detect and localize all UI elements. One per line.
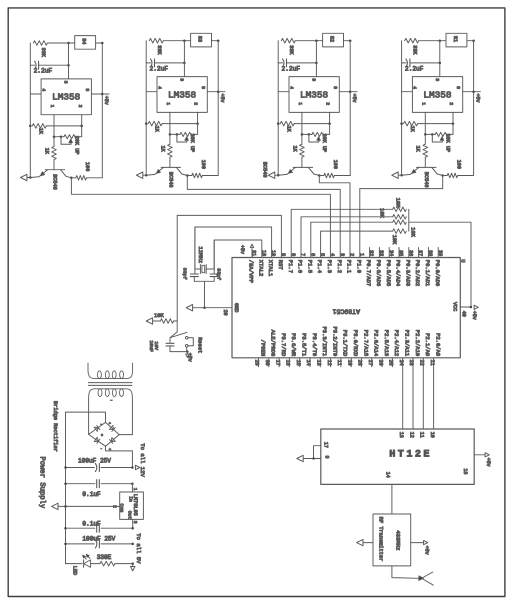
node emitter/ground rail (block 4): [400, 174, 403, 177]
ground arrow Com: [52, 503, 58, 509]
svg-text:LM358: LM358: [168, 89, 197, 100]
svg-text:Out: Out: [127, 511, 133, 520]
svg-text:To all 5V: To all 5V: [135, 533, 142, 564]
svg-text:XTAL1: XTAL1: [267, 260, 274, 277]
svg-text:LM358: LM358: [423, 89, 452, 100]
svg-text:U: U: [460, 259, 466, 262]
pin 38 P0.1/AD1: [424, 248, 433, 287]
node rung4 right: [131, 543, 134, 546]
switch S2 (block 3): [323, 33, 344, 47]
wire pin2 down (block 1): [81, 115, 83, 126]
svg-text:-: -: [100, 448, 102, 452]
svg-text:P3.4/T0: P3.4/T0: [311, 333, 318, 356]
svg-text:P0.6/AD6: P0.6/AD6: [375, 260, 382, 286]
ground arrow (block 3): [268, 172, 278, 178]
svg-text:P2.1/A9: P2.1/A9: [424, 333, 431, 356]
svg-text:4: 4: [288, 86, 294, 89]
node collector (block 1): [70, 177, 73, 180]
pin 10 P3.0/RXD: [346, 330, 359, 367]
svg-text:2: 2: [448, 102, 454, 105]
svg-text:+5v: +5v: [423, 546, 429, 555]
regulator LM78L05: [118, 492, 143, 520]
pin 3 P1.2: [336, 253, 345, 273]
capacitor 2.2uF (block 3): [278, 59, 316, 72]
wire pin8 to rail (block 3): [339, 91, 350, 93]
svg-text:P2.2/A10: P2.2/A10: [414, 330, 421, 356]
pin 35 P0.4/AD4: [395, 248, 404, 287]
svg-text:S4: S4: [81, 38, 87, 44]
pin 33 P0.6/AD6: [375, 248, 384, 287]
svg-text:1: 1: [132, 488, 138, 491]
wire left rail (block 2): [145, 41, 147, 176]
node rail top (block 2): [217, 39, 220, 42]
resistor 10K pull-up 3: [393, 220, 407, 225]
ground arrow (block 2): [136, 172, 146, 178]
svg-text:433MHz: 433MHz: [395, 530, 402, 550]
svg-text:10K: 10K: [154, 313, 164, 319]
svg-text:3: 3: [132, 521, 138, 524]
svg-text:1K: 1K: [154, 126, 160, 133]
wire crystal caps common: [194, 280, 214, 282]
resistor 33K (block 3): [281, 38, 322, 55]
switch S1 (block 4): [446, 33, 467, 47]
node rail top (block 4): [472, 39, 475, 42]
wire pin4 to rail (block 4): [402, 91, 413, 93]
svg-text:HT12E: HT12E: [389, 450, 432, 461]
transformer core: [88, 382, 132, 384]
pin 14 P3.4/T0: [305, 333, 318, 367]
transistor BC548 (block 3): [261, 162, 319, 178]
svg-text:P1.7: P1.7: [287, 260, 294, 273]
pin 4 P1.3: [326, 253, 335, 273]
power +5v tap (block 3): [349, 90, 357, 102]
svg-text:2: 2: [111, 505, 117, 508]
svg-text:4: 4: [156, 86, 162, 89]
capacitor 2.2uF (block 2): [146, 59, 184, 72]
wire rail to regulator: [131, 484, 133, 492]
svg-text:P3.7/RD: P3.7/RD: [280, 333, 287, 357]
wire pin8 to rail (block 4): [463, 91, 474, 93]
wire HT12E pin18 +5v: [474, 454, 485, 456]
wire P2 to HT12E pin 10: [433, 358, 435, 429]
svg-text:P3.3/INT1: P3.3/INT1: [321, 326, 328, 356]
svg-text:32: 32: [368, 250, 374, 256]
label 10K b: [378, 208, 384, 218]
switch S4 (block 1): [75, 36, 96, 50]
wire pin1 down (block 1): [53, 115, 55, 147]
svg-text:100: 100: [84, 162, 90, 171]
node emitter/ground rail (block 2): [145, 174, 148, 177]
svg-text:2: 2: [77, 105, 83, 108]
node rail top (block 1): [101, 42, 104, 45]
svg-text:2: 2: [349, 253, 355, 256]
svg-text:P0.3/AD3: P0.3/AD3: [404, 260, 411, 286]
svg-text:S2: S2: [329, 36, 335, 42]
power +5v tap (block 4): [472, 90, 480, 102]
op-amp LM358 (block 4): [412, 77, 463, 113]
svg-text:/PSEN: /PSEN: [259, 340, 266, 357]
pin 7 P1.6: [297, 253, 306, 273]
wire S-box to rail (block 1): [96, 42, 103, 44]
svg-text:18: 18: [260, 250, 266, 256]
wire left rail (block 1): [29, 43, 31, 178]
wire P2 to HT12E pin 13: [402, 358, 404, 429]
wire pin2 down (block 4): [452, 112, 454, 123]
pin 31 /EA/VPP: [248, 250, 257, 283]
node rung1 right: [131, 466, 134, 469]
svg-text:1: 1: [49, 105, 55, 108]
svg-text:2: 2: [325, 102, 331, 105]
svg-text:100: 100: [332, 160, 338, 169]
node cap/pin3 (block 3): [315, 62, 318, 65]
svg-text:1K: 1K: [43, 148, 49, 155]
svg-text:AT89C51: AT89C51: [333, 308, 360, 315]
ground arrow transmitter: [357, 539, 363, 545]
svg-text:9: 9: [324, 456, 330, 459]
ground arrow (block 1): [21, 174, 31, 180]
svg-text:20: 20: [222, 310, 228, 316]
node pin2/1K/pot (block 1): [80, 125, 83, 128]
resistor 33K (block 4): [405, 38, 446, 55]
pin 32 P0.7/AD7: [365, 248, 374, 287]
svg-text:P3.2/INT0: P3.2/INT0: [331, 326, 338, 356]
node rung2 left: [64, 482, 67, 485]
power +5v VCC pin40: [460, 305, 478, 320]
pin 6 P1.5: [306, 253, 315, 273]
resistor 33K (block 1): [33, 41, 74, 58]
resistor 100 (block 4): [443, 160, 474, 178]
svg-text:4: 4: [329, 253, 335, 256]
svg-text:+5v: +5v: [485, 458, 491, 467]
wire P2 to HT12E pin 11: [422, 358, 424, 429]
svg-text:P2.5/A13: P2.5/A13: [383, 330, 390, 356]
pin 1 P1.0: [355, 253, 364, 273]
pin 29 /PSEN: [254, 340, 267, 367]
svg-text:1K: 1K: [291, 146, 297, 153]
svg-text:Reset: Reset: [197, 337, 203, 353]
svg-text:3: 3: [63, 81, 69, 84]
svg-text:1: 1: [358, 253, 364, 256]
svg-text:RST: RST: [277, 260, 284, 271]
ground arrow reset: [146, 318, 152, 324]
svg-text:1K: 1K: [415, 146, 421, 153]
node HT12E gnd: [312, 457, 315, 460]
wire pull-up 4 to P1.4: [321, 231, 393, 257]
wire left rail (block 3): [277, 41, 279, 176]
svg-text:GND: GND: [233, 303, 239, 312]
pin 27 P2.6/A14: [367, 330, 380, 367]
wire Out down: [132, 519, 134, 528]
node collector (block 3): [318, 174, 321, 177]
node rail/1K (block 2): [145, 122, 148, 125]
svg-text:100uF 25V: 100uF 25V: [82, 536, 115, 543]
wire right rail (block 3): [349, 41, 351, 176]
pin 34 P0.5/AD5: [385, 248, 394, 287]
capacitor 2.2uF (block 4): [402, 59, 440, 72]
svg-text:2.2uF: 2.2uF: [282, 65, 301, 72]
pin 13 P3.3/INT1: [316, 326, 329, 366]
svg-text:36: 36: [407, 250, 413, 256]
svg-text:+5v: +5v: [471, 311, 477, 320]
pin 9 RST: [277, 253, 286, 270]
svg-text:9: 9: [280, 253, 286, 256]
svg-text:P0.1/AD1: P0.1/AD1: [424, 260, 431, 287]
svg-text:P1.2: P1.2: [336, 260, 343, 273]
node rung1 left: [64, 466, 67, 469]
svg-text:Bridge Rectifier: Bridge Rectifier: [52, 401, 58, 452]
node rail/1K (block 4): [400, 122, 403, 125]
node rung3 left: [64, 527, 67, 530]
bridge diode 4: [111, 437, 115, 441]
svg-text:10K: 10K: [391, 235, 397, 245]
svg-text:2.2uF: 2.2uF: [405, 65, 424, 72]
svg-text:12MHz: 12MHz: [197, 246, 204, 263]
svg-text:2.2uF: 2.2uF: [34, 68, 53, 75]
svg-text:330E: 330E: [97, 554, 112, 561]
svg-text:33K: 33K: [156, 45, 162, 55]
wire right rail (block 2): [217, 41, 219, 176]
svg-text:3: 3: [434, 78, 440, 81]
svg-text:P1.6: P1.6: [297, 260, 304, 273]
antenna: [392, 566, 433, 585]
node S-box-left (block 3): [315, 39, 318, 42]
pin 24 P2.3/A11: [398, 330, 411, 366]
wire XTAL1 to crystal: [195, 227, 272, 269]
transistor BC548 (block 1): [30, 170, 71, 190]
wire pin1 down (block 3): [301, 112, 303, 144]
pin 19 XTAL1: [267, 250, 276, 277]
svg-text:8: 8: [290, 253, 296, 256]
resistor 10K pull-up 2: [393, 215, 407, 220]
svg-text:33: 33: [378, 250, 384, 256]
wire block4 output to P1.0: [360, 176, 443, 258]
svg-text:7: 7: [300, 253, 306, 256]
svg-text:Power Supply: Power Supply: [37, 457, 45, 509]
RF transmitter module: [373, 514, 411, 566]
wire RST: [177, 215, 281, 332]
resistor 1K vertical (block 4): [415, 144, 428, 167]
wire S-box to rail (block 4): [467, 40, 474, 42]
svg-text:31: 31: [251, 250, 257, 256]
node collector (block 4): [441, 174, 444, 177]
svg-text:13: 13: [398, 432, 404, 438]
power +5v reset: [186, 352, 193, 362]
svg-text:3: 3: [179, 78, 185, 81]
svg-text:+5v: +5v: [187, 353, 193, 362]
wire pull-up 1 to P1.7: [291, 209, 393, 257]
bridge rectifier diamond: [89, 422, 120, 446]
wire reset bottom: [170, 351, 187, 353]
svg-text:14: 14: [385, 472, 391, 478]
svg-text:BC548: BC548: [52, 174, 58, 190]
wire pin1 down (block 4): [424, 112, 426, 144]
wire S-box to rail (block 2): [212, 40, 219, 42]
svg-text:4: 4: [412, 86, 418, 89]
pin 23 P2.2/A10: [408, 330, 421, 366]
svg-text:100: 100: [200, 160, 206, 169]
node S-box-left (block 2): [183, 39, 186, 42]
resistor 330E: [91, 554, 133, 566]
wire block3 output to P1.1: [319, 176, 350, 258]
svg-text:17: 17: [323, 442, 329, 448]
svg-text:39: 39: [437, 250, 443, 256]
pin 15 P3.5/T1: [295, 333, 308, 367]
wire cap common to gnd: [204, 281, 206, 307]
svg-text:To all 12V: To all 12V: [139, 443, 146, 477]
encoder HT12E: [321, 429, 474, 484]
svg-text:P1.4: P1.4: [316, 260, 323, 274]
svg-text:6: 6: [309, 253, 315, 256]
output To all 5V: [131, 533, 143, 571]
svg-text:P0.2/AD2: P0.2/AD2: [414, 260, 421, 286]
node pin2/1K/pot (block 4): [452, 122, 455, 125]
wire pin8 to rail (block 1): [91, 93, 102, 95]
svg-text:20K UP: 20K UP: [321, 134, 327, 153]
wire pin3 feed (block 4): [439, 41, 441, 77]
svg-text:5: 5: [319, 253, 325, 256]
capacitor 33pf left: [182, 227, 199, 281]
svg-text:8: 8: [455, 86, 461, 89]
capacitor 100uF 25V filter: [66, 458, 133, 472]
bridge diode 3: [94, 437, 98, 441]
capacitor 0.1uF input: [66, 480, 133, 498]
resistor 1K horizontal (block 3): [280, 121, 329, 132]
wire pull-up 2 to P1.6: [301, 217, 393, 258]
svg-text:10K: 10K: [378, 208, 384, 218]
svg-text:BC548: BC548: [423, 172, 429, 188]
power +5v tap (block 2): [217, 90, 225, 102]
svg-text:19: 19: [270, 250, 276, 256]
svg-text:RF Transmitter: RF Transmitter: [378, 517, 384, 562]
svg-text:~: ~: [110, 400, 112, 404]
node S-box-left (block 1): [67, 42, 70, 45]
svg-text:LM358: LM358: [52, 92, 81, 103]
svg-text:o: o: [101, 434, 103, 438]
svg-text:33pf: 33pf: [182, 268, 188, 280]
node rung3 right: [131, 527, 134, 530]
potentiometer 20K UP (block 2): [169, 124, 198, 153]
svg-text:12: 12: [408, 432, 414, 438]
svg-text:18: 18: [462, 468, 468, 474]
wire secondary right to bridge: [119, 399, 132, 435]
svg-text:3: 3: [339, 253, 345, 256]
transformer primary: [88, 363, 133, 379]
wire Com to ground: [58, 505, 120, 507]
wire left rail (block 4): [401, 41, 403, 176]
resistor 1K vertical (block 2): [159, 144, 172, 167]
pin 11 P3.1/TXD: [336, 330, 349, 367]
power +5v tap (block 1): [101, 93, 109, 105]
svg-text:10K: 10K: [410, 227, 416, 237]
output To all 12V: [135, 443, 146, 477]
svg-text:P2.0/A8: P2.0/A8: [434, 333, 441, 356]
wire transmitter +5v: [411, 542, 424, 544]
svg-text:3: 3: [311, 78, 317, 81]
pin 26 P2.5/A13: [377, 330, 390, 367]
pin 2 P1.1: [346, 253, 355, 274]
svg-text:P2.6/A14: P2.6/A14: [373, 330, 380, 357]
svg-text:100uF 25V: 100uF 25V: [78, 458, 111, 465]
wire pin8 to rail (block 2): [207, 91, 218, 93]
node gnd junction: [203, 306, 206, 309]
svg-text:11: 11: [419, 432, 425, 438]
potentiometer 20K UP (block 3): [301, 124, 330, 153]
switch Reset: [170, 332, 203, 353]
svg-text:+5v: +5v: [351, 94, 357, 103]
node collector (block 2): [186, 174, 189, 177]
svg-text:LED: LED: [72, 566, 78, 575]
op-amp LM358 (block 2): [156, 77, 207, 113]
power +5v EA pin: [239, 244, 254, 257]
svg-text:8: 8: [332, 86, 338, 89]
svg-text:VCC: VCC: [451, 302, 457, 311]
pin 12 P3.2/INT0: [326, 326, 339, 366]
wire bridge bottom to right rail: [106, 446, 133, 467]
svg-text:1K: 1K: [286, 126, 292, 133]
capacitor 2.2uF (block 1): [30, 61, 68, 74]
capacitor 10uF 16V: [148, 340, 174, 352]
svg-text:P1.1: P1.1: [346, 260, 353, 274]
svg-text:20K UP: 20K UP: [189, 134, 195, 153]
svg-text:P3.1/TXD: P3.1/TXD: [342, 330, 349, 357]
svg-text:P2.3/A11: P2.3/A11: [404, 330, 411, 357]
wire pull-up bus: [408, 209, 410, 231]
svg-text:16V: 16V: [153, 341, 159, 350]
wire pin3 feed (block 1): [68, 43, 70, 79]
wire pin3 feed (block 3): [315, 41, 317, 77]
svg-text:+5v: +5v: [474, 94, 480, 103]
svg-text:In: In: [127, 496, 133, 502]
wire GND pin 20: [192, 307, 232, 309]
svg-text:40: 40: [461, 311, 467, 317]
power +5v HT12E: [485, 453, 491, 467]
node rail/1K (block 1): [29, 125, 32, 128]
pin 39 P0.0/AD0: [434, 248, 443, 287]
svg-text:P3.0/RXD: P3.0/RXD: [352, 330, 359, 357]
node pin2/1K/pot (block 3): [328, 122, 331, 125]
wire P2 to HT12E pin 12: [412, 358, 414, 429]
resistor 100 (block 2): [187, 160, 218, 178]
pin 5 P1.4: [316, 253, 325, 274]
wire pin3 feed (block 2): [183, 41, 185, 77]
wire pull-up 3 to P1.5: [311, 222, 393, 257]
wire block1 output to P1.3: [71, 178, 330, 258]
svg-text:P0.7/AD7: P0.7/AD7: [365, 260, 372, 286]
svg-text:35: 35: [398, 250, 404, 256]
svg-text:20K UP: 20K UP: [445, 134, 451, 153]
svg-text:0.1uF: 0.1uF: [82, 520, 101, 527]
svg-text:BC548: BC548: [168, 172, 174, 188]
node Com/left rail: [64, 505, 67, 508]
resistor 1K horizontal (block 2): [148, 121, 197, 132]
pin 8 P1.7: [287, 253, 296, 273]
svg-text:20K UP: 20K UP: [73, 136, 79, 155]
svg-text:-: -: [100, 423, 102, 427]
svg-text:2.2uF: 2.2uF: [150, 65, 169, 72]
pin 17 P3.7/RD: [274, 333, 287, 367]
resistor 100 (block 3): [319, 160, 350, 178]
svg-text:P0.5/AD5: P0.5/AD5: [385, 260, 392, 286]
svg-text:+5v: +5v: [219, 94, 225, 103]
svg-text:P1.5: P1.5: [306, 260, 313, 273]
svg-text:1K: 1K: [409, 126, 415, 133]
svg-text:1K: 1K: [159, 146, 165, 153]
svg-text:P3.5/T1: P3.5/T1: [301, 333, 308, 357]
label 10K c: [391, 235, 397, 245]
wire to gnd arrow HT12E: [303, 458, 314, 460]
svg-text:LM358: LM358: [300, 89, 329, 100]
svg-text:34: 34: [388, 250, 394, 256]
